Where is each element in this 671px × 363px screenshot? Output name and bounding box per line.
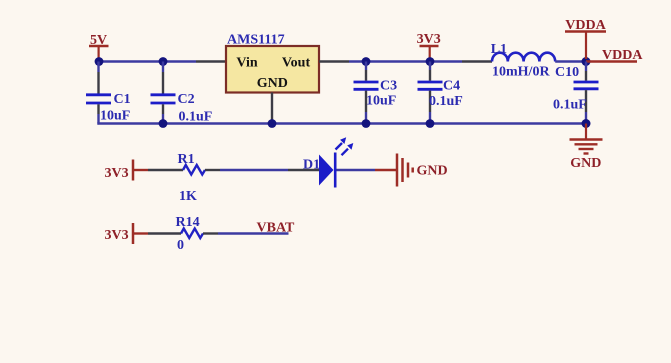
junction node C10 bottom [582,119,591,128]
svg-text:C10: C10 [555,65,579,80]
LED D1 [319,137,353,187]
wire 3V3 to R14 [148,232,181,234]
svg-text:D1: D1 [303,157,320,172]
svg-text:GND: GND [257,76,288,91]
svg-text:0.1uF: 0.1uF [553,98,587,113]
power ground GND (middle row) [375,154,448,187]
wire 3V3 to R1 [148,169,183,171]
junction node C3 top [362,57,371,66]
svg-text:C2: C2 [178,92,195,107]
power port 5V [89,33,109,59]
svg-text:0: 0 [177,238,184,253]
capacitor C1 [86,62,111,124]
resistor R14 [181,229,203,239]
svg-text:GND: GND [417,164,448,179]
wire VDDA net to right [586,60,637,62]
wire L1 to VDDA node [555,60,586,63]
wire R1 to D1 [205,169,319,171]
svg-text:10uF: 10uF [366,94,396,109]
pin GND of AMS1117 [271,93,273,124]
wire top rail left (5V to Vin) [99,60,226,63]
wire C1 bottom corner [97,122,99,125]
junction node C2 top [159,57,168,66]
wire R14 to VBAT [203,232,289,234]
regulator body AMS1117 [226,46,319,93]
svg-text:10uF: 10uF [100,109,130,124]
junction node C4/3V3 top [426,57,435,66]
resistor R1 [183,165,205,175]
junction node C2 bottom [159,119,168,128]
svg-text:10mH/0R: 10mH/0R [492,64,550,79]
wire bottom ground rail [99,122,586,125]
svg-text:3V3: 3V3 [105,228,129,243]
capacitor C2 [151,62,176,124]
junction node VDDA/C10 [582,57,591,66]
svg-text:0.1uF: 0.1uF [429,94,463,109]
svg-text:Vin: Vin [236,55,257,70]
junction node U GND bottom [268,119,277,128]
svg-text:VBAT: VBAT [257,221,296,236]
svg-text:1K: 1K [179,189,197,204]
svg-text:GND: GND [570,156,601,171]
wire top rail right (Vout to L1) [319,60,492,62]
capacitor C4 [418,62,443,124]
junction node C4 bottom [426,119,435,128]
svg-text:C1: C1 [114,92,131,107]
svg-text:R14: R14 [176,215,200,230]
svg-text:C4: C4 [443,79,460,94]
power port 3V3 (bottom row) [105,223,149,244]
svg-text:Vout: Vout [282,55,311,70]
svg-text:L1: L1 [491,42,507,57]
power port VDDA (top) [565,18,607,59]
power port 3V3 (middle row) [105,160,149,182]
capacitor C3 [354,62,379,124]
capacitor C10 [574,62,599,124]
svg-text:C3: C3 [380,79,397,94]
wire D1 to GND [337,169,376,172]
junction node 5V/C1 [95,57,104,66]
svg-text:3V3: 3V3 [105,166,129,181]
inductor L1 [492,53,555,62]
power port 3V3 (top) [417,32,441,59]
power ground GND (right) [570,124,603,172]
junction node C3 bottom [362,119,371,128]
svg-text:3V3: 3V3 [417,32,441,47]
